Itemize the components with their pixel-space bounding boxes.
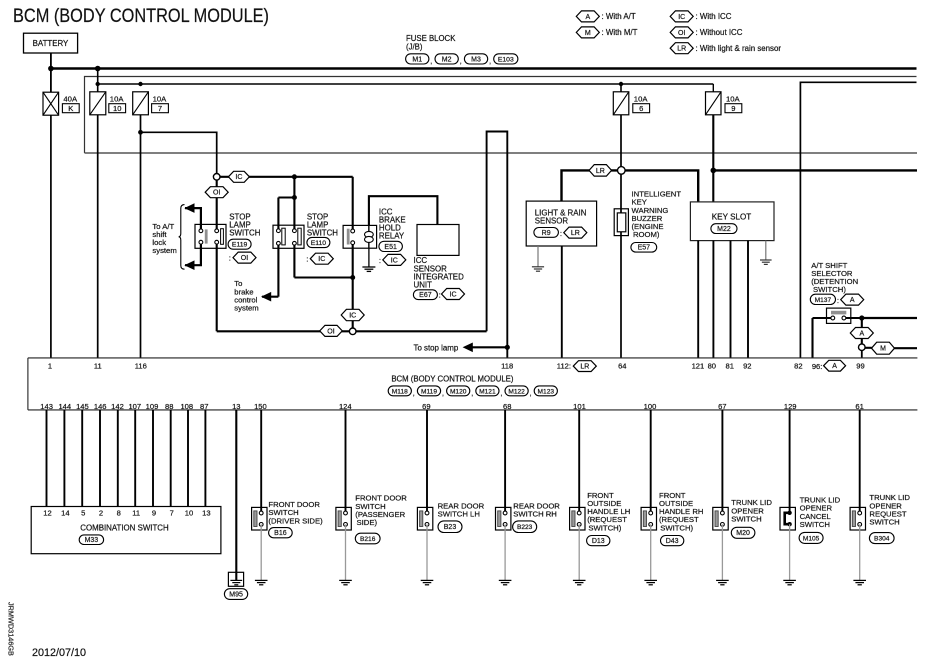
svg-text:D43: D43 (666, 538, 679, 545)
front door switch passenger side S6 B216 with ground (336, 507, 351, 530)
svg-text:64: 64 (618, 361, 626, 370)
legend symbol IC : With ICC (670, 11, 693, 22)
legend symbol OI : Without ICC (670, 27, 693, 38)
option tag LR on accessory bus (589, 165, 612, 177)
svg-text:SENSOR: SENSOR (535, 216, 569, 225)
brace for A/T shift lock system (179, 205, 185, 270)
svg-text:101: 101 (573, 402, 586, 411)
node open circle stop lamp output (349, 328, 356, 335)
svg-text:M123: M123 (538, 388, 555, 395)
svg-text:142: 142 (111, 402, 124, 411)
wire relay coil to ground (368, 248, 370, 266)
svg-text:116: 116 (135, 361, 147, 370)
svg-text:10: 10 (185, 508, 193, 517)
svg-text:40A: 40A (63, 95, 78, 104)
svg-text:6: 6 (639, 104, 643, 113)
junction to stop lamp branch (505, 345, 510, 350)
wire to A/T shift lock system bottom arrow (185, 242, 201, 265)
svg-text:LR: LR (677, 46, 686, 53)
svg-text:67: 67 (718, 402, 726, 411)
wire fuse 10 to BCM pin 11 (97, 115, 99, 358)
connector E103 (494, 54, 518, 64)
svg-text:BCM (BODY CONTROL MODULE): BCM (BODY CONTROL MODULE) (13, 6, 269, 27)
svg-text:M137: M137 (815, 297, 832, 304)
svg-text:D13: D13 (592, 538, 605, 545)
wire battery to bus (50, 53, 52, 92)
fuse 9 10A (706, 92, 722, 115)
svg-text:R9: R9 (542, 230, 551, 237)
svg-text:A: A (585, 14, 590, 21)
node open circle OI/IC split (213, 174, 220, 181)
svg-text:E67: E67 (419, 292, 432, 299)
connector M3 (464, 54, 487, 64)
ICC sensor integrated unit U1 (417, 225, 459, 256)
svg-text:1: 1 (48, 361, 52, 370)
wire rail to fuse 9 (712, 84, 714, 92)
svg-text:10A: 10A (726, 95, 741, 104)
wire fuse 7 down to BCM pin 116 (140, 115, 142, 358)
trunk lid opener cancel switch S12 M105 with ground (780, 507, 795, 530)
svg-text:,: , (500, 390, 502, 397)
svg-text::: : (560, 229, 562, 238)
wires BCM to combination switch (46, 410, 48, 507)
ICC brake hold relay K1 E51 (368, 225, 370, 248)
svg-text:10A: 10A (634, 95, 649, 104)
svg-text:M: M (585, 30, 591, 37)
svg-text:M1: M1 (412, 56, 422, 63)
svg-text::: : (379, 256, 381, 265)
svg-text:M3: M3 (471, 56, 481, 63)
svg-text:9: 9 (731, 104, 735, 113)
junction rail at fuse 10 (96, 82, 100, 86)
svg-text:E51: E51 (384, 244, 397, 251)
node open circle A/T M/T split (859, 344, 866, 351)
intelligent key warning buzzer BZ1 E57 (614, 209, 628, 236)
svg-text:SIDE): SIDE) (357, 518, 378, 527)
rear door switch RH S8 B223 with ground (496, 507, 511, 530)
svg-text:M22: M22 (717, 226, 731, 233)
svg-text:: With M/T: : With M/T (602, 28, 638, 37)
svg-text:143: 143 (40, 402, 53, 411)
wire BCM pin 68 to rear door switch RH (504, 410, 506, 513)
combination switch S4 M33 (31, 507, 221, 554)
svg-text:LR: LR (596, 168, 605, 175)
svg-text:KEY SLOT: KEY SLOT (712, 212, 751, 221)
body ground M95 (228, 572, 243, 586)
svg-text:112:: 112: (557, 361, 571, 370)
wire key slot ground (765, 241, 767, 260)
svg-text:A: A (859, 330, 864, 337)
svg-text:B304: B304 (874, 536, 890, 543)
wire selector output to right edge (862, 317, 917, 319)
svg-text:2012/07/10: 2012/07/10 (32, 647, 86, 659)
junction stop lamp switch 2 split (292, 195, 297, 200)
A/T shift selector detention switch S3 (813, 317, 833, 319)
node open circle fuse 6 tap (618, 167, 626, 175)
svg-text:150: 150 (254, 402, 267, 411)
svg-text:SWITCH RH: SWITCH RH (513, 510, 557, 519)
svg-text:To stop lamp: To stop lamp (414, 343, 459, 352)
svg-text:E110: E110 (311, 240, 327, 247)
svg-text:E103: E103 (498, 56, 514, 63)
svg-text:A: A (850, 297, 855, 304)
svg-text:2: 2 (99, 508, 103, 517)
wire to stop lamp (470, 346, 507, 348)
wire sensor to BCM pin 112 (561, 246, 563, 358)
fuse 7 10A (133, 92, 149, 115)
wire fuse supply rail inside J/B (98, 83, 714, 85)
svg-text:10A: 10A (110, 95, 125, 104)
wire drop to stop lamp switch 2 (293, 177, 295, 198)
fuse 10 10A (90, 92, 106, 115)
wire BCM pin 67 to trunk lid opener switch (721, 410, 723, 513)
connector M2 (435, 54, 458, 64)
wire M/T branch (865, 347, 872, 349)
svg-text::: : (306, 255, 308, 264)
svg-text:(J/B): (J/B) (406, 42, 423, 51)
wire key slot to BCM pin 92 (747, 241, 749, 358)
wire accessory bus right segment (713, 169, 917, 171)
option tag IC on relay output (341, 309, 364, 320)
svg-text:M33: M33 (85, 537, 99, 544)
svg-text:E119: E119 (232, 242, 248, 249)
svg-text:A: A (832, 363, 837, 370)
option tag IC on branch (228, 171, 249, 182)
wire relay output down (352, 243, 354, 332)
connector M1 (406, 54, 429, 64)
wire BCM pin 13 to body ground (235, 410, 237, 581)
svg-text:,: , (489, 59, 491, 66)
svg-text:SWITCH: SWITCH (800, 520, 830, 529)
svg-text:108: 108 (180, 402, 193, 411)
svg-text:14: 14 (61, 508, 69, 517)
wire selector to BCM pin 96 (811, 318, 813, 358)
svg-text:11: 11 (94, 361, 102, 370)
svg-text:M118: M118 (392, 388, 408, 395)
wire stop lamp output run (217, 330, 487, 332)
svg-text::: : (837, 296, 839, 305)
svg-text:87: 87 (200, 402, 208, 411)
svg-text:LR: LR (571, 230, 580, 237)
svg-text:12: 12 (43, 508, 51, 517)
svg-text:system: system (152, 246, 176, 255)
svg-text:121: 121 (692, 361, 705, 370)
wire to A/T shift lock system top arrow (185, 208, 201, 231)
svg-text:B16: B16 (274, 530, 287, 537)
svg-text:118: 118 (501, 361, 513, 370)
wire sensor ground (537, 246, 539, 267)
battery B1 (24, 33, 78, 53)
wire fuse block feed down (97, 69, 99, 92)
svg-text:9: 9 (152, 508, 156, 517)
ground key slot (760, 259, 772, 261)
stop lamp switch S1 E119 (216, 242, 218, 331)
svg-text:88: 88 (165, 402, 173, 411)
svg-text:,: , (442, 390, 444, 397)
svg-text:system: system (234, 304, 258, 313)
svg-text:B216: B216 (360, 536, 376, 543)
wire BCM pin 69 to rear door switch LH (426, 410, 428, 513)
svg-text:SWITCH: SWITCH (307, 229, 338, 238)
legend symbol M : With M/T (576, 27, 599, 38)
wire buzzer to BCM pin 64 (620, 232, 622, 358)
svg-text:: With A/T: : With A/T (602, 12, 636, 21)
svg-text:92: 92 (743, 361, 751, 370)
wire fuse 6 to buzzer (620, 174, 622, 213)
wire BCM pin 124 to front door switch passenger side (345, 410, 347, 513)
svg-text:7: 7 (170, 508, 174, 517)
wire selector output down with A/T option (861, 318, 863, 344)
rear door switch LH S7 B23 with ground (417, 507, 432, 530)
svg-text:5: 5 (81, 508, 85, 517)
ground light and rain sensor (532, 266, 544, 268)
svg-text:10A: 10A (153, 95, 168, 104)
junction rail at fuse 7 (138, 82, 142, 86)
svg-text:ROOM): ROOM) (633, 230, 660, 239)
svg-text:8: 8 (117, 508, 121, 517)
fusible link K 40A (43, 92, 59, 115)
wire to BCM pin 99 (861, 351, 863, 358)
svg-text:UNIT: UNIT (414, 280, 433, 289)
svg-text:M120: M120 (450, 388, 467, 395)
legend symbol A : With A/T (576, 11, 599, 22)
svg-text:99: 99 (856, 361, 864, 370)
svg-text:M119: M119 (421, 388, 437, 395)
svg-text:SWITCH): SWITCH) (813, 285, 846, 294)
svg-text:COMBINATION SWITCH: COMBINATION SWITCH (80, 524, 169, 533)
option tag OI on output run (320, 325, 343, 336)
svg-text:145: 145 (76, 402, 89, 411)
svg-text:10: 10 (113, 104, 121, 113)
wire fuse 7 branch to stop lamp switches (141, 132, 217, 177)
junction relay output node (350, 275, 355, 280)
svg-text:107: 107 (128, 402, 141, 411)
junction rail at fuse 6 (619, 82, 623, 86)
front door switch driver side S5 B16 with ground (252, 507, 267, 530)
svg-text:M2: M2 (442, 56, 452, 63)
svg-text:,: , (530, 390, 532, 397)
svg-text:SWITCH: SWITCH (869, 518, 899, 527)
ground relay coil (362, 266, 375, 268)
trunk lid opener switch S11 M20 with ground (713, 507, 728, 530)
svg-text:,: , (430, 59, 432, 66)
svg-text:: Without ICC: : Without ICC (696, 28, 743, 37)
svg-text::: : (439, 290, 441, 299)
svg-text:13: 13 (202, 508, 210, 517)
svg-text:B223: B223 (517, 524, 533, 531)
svg-text:OI: OI (213, 190, 220, 197)
trunk lid opener request switch S13 B304 with ground (850, 507, 865, 530)
wire fuse 6 down (620, 84, 622, 92)
svg-text:124: 124 (339, 402, 352, 411)
wire fusible link to BCM pin 1 (50, 115, 52, 358)
svg-text:100: 100 (644, 402, 657, 411)
svg-text:96:: 96: (812, 362, 823, 371)
svg-text:13: 13 (232, 402, 240, 411)
svg-text:OI: OI (241, 255, 248, 262)
key slot U3 M22 (690, 202, 774, 241)
svg-text:M95: M95 (229, 591, 243, 598)
wire loop through J/B to pin 118 (487, 132, 508, 358)
wire BCM pin 150 to front door switch driver side (260, 410, 262, 513)
svg-text:: With ICC: : With ICC (696, 12, 732, 21)
svg-text:LR: LR (580, 364, 589, 371)
fuse block J/B boundary (85, 77, 917, 153)
svg-text:SWITCH LH: SWITCH LH (438, 510, 480, 519)
svg-text:M: M (880, 346, 886, 353)
svg-text:,: , (460, 59, 462, 66)
svg-text:80: 80 (708, 361, 716, 370)
svg-text:OI: OI (327, 328, 334, 335)
svg-text:M122: M122 (508, 388, 525, 395)
front outside handle LH request switch S9 D13 with ground (570, 507, 585, 530)
svg-text:IC: IC (450, 291, 457, 298)
svg-text:68: 68 (503, 402, 511, 411)
svg-text:IC: IC (391, 257, 398, 264)
wire stop lamp switch 2 to relay output node (294, 276, 352, 278)
legend symbol LR : With light and rain sensor (670, 43, 693, 54)
svg-text:109: 109 (146, 402, 159, 411)
svg-text:K: K (68, 104, 73, 113)
junction IC line to stop lamp switch 2 (292, 174, 297, 179)
svg-text:144: 144 (58, 402, 71, 411)
svg-text:146: 146 (94, 402, 107, 411)
svg-text:,: , (471, 390, 473, 397)
wire to brake control system (262, 296, 278, 298)
svg-text:11: 11 (132, 508, 140, 517)
wire relay coil to ICC sensor integrated unit (369, 196, 438, 225)
svg-text:BCM (BODY CONTROL MODULE): BCM (BODY CONTROL MODULE) (391, 374, 514, 383)
wire accessory bus left segment to key slot (562, 170, 699, 202)
svg-text:E57: E57 (638, 245, 651, 252)
svg-text:M20: M20 (736, 530, 750, 537)
svg-text:82: 82 (794, 361, 802, 370)
junction selector output (859, 315, 864, 320)
junction battery bus to fuse block feed (95, 66, 101, 72)
wire key slot to BCM pin 121 (697, 241, 699, 358)
svg-text:SWITCH: SWITCH (731, 514, 761, 523)
junction fuse 9 and bus (711, 168, 717, 174)
svg-text:(DRIVER SIDE): (DRIVER SIDE) (268, 516, 323, 525)
svg-text:129: 129 (784, 402, 797, 411)
svg-text:7: 7 (158, 104, 162, 113)
wire key slot to BCM pin 81 (730, 241, 732, 358)
svg-text:69: 69 (422, 402, 430, 411)
svg-text:BATTERY: BATTERY (33, 39, 69, 48)
junction fuse 7 branch (138, 130, 143, 135)
svg-text:IC: IC (235, 174, 242, 181)
option tag OI on stop lamp switch 1 feed (216, 180, 218, 231)
wire BCM pin 61 to trunk lid opener request switch (859, 410, 861, 513)
wire main battery bus (51, 67, 917, 70)
svg-text:SWITCH): SWITCH) (660, 523, 693, 532)
svg-text:SWITCH: SWITCH (229, 229, 260, 238)
wire BCM pin 129 to trunk lid opener cancel switch (789, 410, 791, 513)
wire relay feed (352, 177, 354, 231)
svg-text:,: , (413, 390, 415, 397)
junction battery bus at battery drop (48, 66, 54, 72)
wire fuse 9 to key slot (712, 115, 714, 202)
svg-text:OI: OI (678, 30, 685, 37)
front outside handle RH request switch S10 D43 with ground (641, 507, 656, 530)
svg-text:81: 81 (725, 361, 733, 370)
wire BCM pin 100 to front outside handle RH (650, 410, 652, 513)
light and rain sensor U2 R9 (526, 201, 596, 246)
svg-text:JRMWD3146GB: JRMWD3146GB (7, 602, 16, 656)
stop lamp switch S2 E110 (277, 243, 279, 296)
svg-text:SWITCH): SWITCH) (588, 523, 621, 532)
svg-text:IC: IC (349, 312, 356, 319)
fuse 6 10A (613, 92, 629, 115)
svg-text:IC: IC (318, 256, 325, 263)
BCM body control module U4 (28, 357, 918, 359)
svg-text:M121: M121 (479, 388, 496, 395)
svg-text:61: 61 (855, 402, 863, 411)
svg-text:: With light & rain sensor: : With light & rain sensor (696, 44, 782, 53)
wire BCM pin 101 to front outside handle LH (578, 410, 580, 513)
svg-text:RELAY: RELAY (379, 232, 405, 241)
connectors M118-M123 (388, 386, 411, 396)
svg-text:B23: B23 (444, 524, 457, 531)
svg-text::: : (229, 253, 231, 262)
svg-text:IC: IC (678, 14, 685, 21)
svg-text:M105: M105 (803, 535, 820, 542)
wire key slot to BCM pin 80 (712, 241, 714, 358)
wire J/B tap to BCM pin 82 (800, 82, 916, 358)
wire IC branch line (217, 176, 353, 178)
